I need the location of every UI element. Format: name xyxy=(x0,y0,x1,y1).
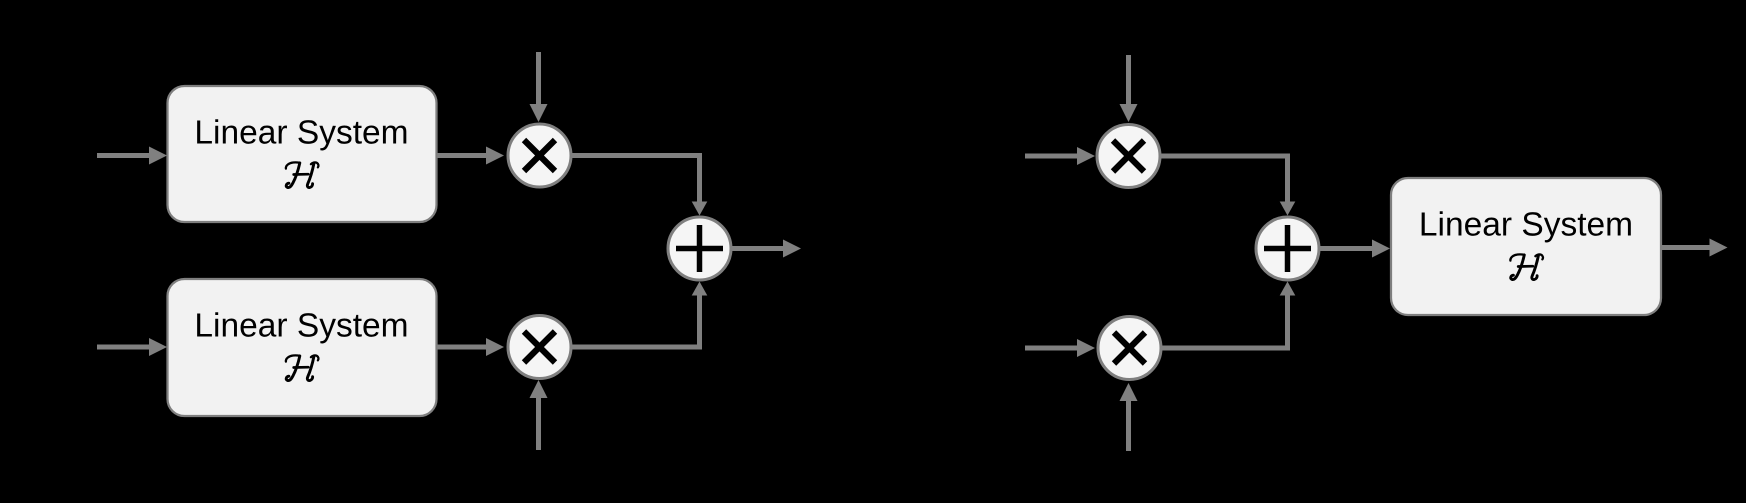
wire arrow down into multiplier M1 xyxy=(530,52,548,122)
linear system box H3 xyxy=(1391,178,1661,315)
wire elbow from M3 to adder S2 xyxy=(1160,156,1295,216)
multiplier M2 xyxy=(508,316,571,379)
wire elbow from M1 to adder S1 xyxy=(571,156,707,216)
adder S1 xyxy=(668,217,731,280)
wire output arrow from adder S1 xyxy=(732,240,801,258)
adder S2 xyxy=(1256,217,1319,280)
svg-text:Linear System: Linear System xyxy=(1419,206,1633,243)
multiplier M4 xyxy=(1098,317,1161,380)
wire arrow up into multiplier M4 from below xyxy=(1120,383,1138,451)
wire arrow box H1 to multiplier M1 xyxy=(437,147,504,165)
linear system box H1 xyxy=(168,86,437,222)
wire arrow up into multiplier M2 from below xyxy=(530,380,548,450)
wire arrow down into multiplier M3 xyxy=(1120,55,1138,122)
wire output arrow from box H3 xyxy=(1661,239,1728,257)
wire elbow from M4 to adder S2 xyxy=(1161,282,1295,349)
wire input arrow into box H2 xyxy=(97,338,167,356)
wire input arrow into box H1 xyxy=(97,147,167,165)
wire arrow box H2 to multiplier M2 xyxy=(437,338,504,356)
svg-text:Linear System: Linear System xyxy=(194,114,408,151)
multiplier M1 xyxy=(508,124,571,187)
wire input arrow into multiplier M4 xyxy=(1025,339,1095,357)
linear system box H2 xyxy=(168,279,437,416)
wire arrow adder S2 to box H3 xyxy=(1320,240,1390,258)
wire input arrow into multiplier M3 xyxy=(1025,147,1095,165)
multiplier M3 xyxy=(1097,125,1160,188)
svg-text:Linear System: Linear System xyxy=(194,307,408,344)
wire elbow from M2 to adder S1 xyxy=(571,282,707,348)
